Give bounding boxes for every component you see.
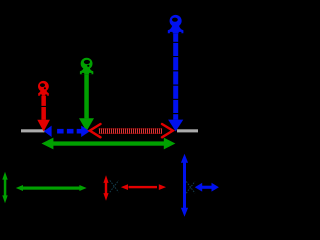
force F2 (green figure: disc head, shoulders, stem, down head)	[79, 58, 94, 132]
multiplication sign (dark, between red arrows)	[110, 180, 119, 192]
distance arrow b (blue dashed horizontal double arrow on beam)	[44, 126, 90, 137]
multiplication sign (dark, between blue arrows)	[186, 181, 195, 193]
equation term: F1 magnitude (red vertical double arrow, bottom)	[103, 175, 108, 201]
beam (gray bar, right segment)	[177, 129, 198, 132]
equation term: distance a (green horizontal double arrow, bottom)	[16, 185, 87, 191]
equation term: distance b (blue horizontal double arrow, bottom right)	[195, 183, 219, 192]
equation term: distance c (red horizontal double arrow, bottom)	[121, 184, 166, 190]
resultant force R (blue figure: disc head, shoulders, long dashed stem, down head)	[168, 15, 184, 132]
equation term: F2 magnitude (green vertical double arrow, bottom left)	[2, 172, 7, 203]
beam (gray bar, left segment)	[21, 129, 45, 132]
distance arrow a (green horizontal double arrow below beam)	[42, 138, 176, 150]
force F1 (red figure: disc head, shoulders, dashed stem, down head)	[37, 81, 50, 132]
distance arrow c (red hatched horizontal double arrow on beam)	[90, 124, 173, 137]
equation term: resultant magnitude (blue vertical double arrow, bottom)	[181, 154, 188, 217]
